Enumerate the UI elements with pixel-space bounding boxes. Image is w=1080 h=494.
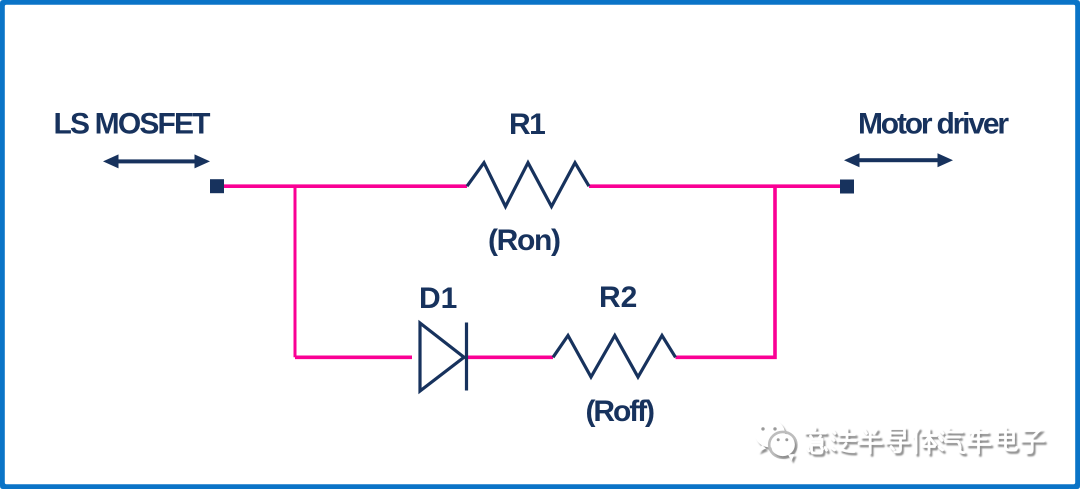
- wire: bottom branch to diode: [295, 355, 412, 359]
- 子: [1022, 431, 1044, 453]
- wire: left branch vertical drop: [294, 185, 297, 358]
- resistor R2 zigzag: [553, 336, 676, 378]
- 汽: [939, 429, 964, 453]
- 电: [998, 428, 1017, 450]
- double arrow under Motor driver: [844, 153, 953, 167]
- wire: R1 to right pad: [589, 184, 840, 188]
- svg-text:LS MOSFET: LS MOSFET: [54, 108, 211, 141]
- 半: [859, 430, 882, 454]
- svg-text:(Roff): (Roff): [586, 395, 656, 428]
- watermark caption 意法半导体汽车电子 (drawn strokes): [806, 428, 1044, 454]
- svg-text:D1: D1: [419, 282, 457, 315]
- 意: [806, 428, 827, 454]
- 导: [887, 429, 909, 452]
- svg-text:R2: R2: [599, 281, 637, 314]
- wire: diode to R2: [464, 355, 553, 359]
- terminal node right (square pad): [840, 180, 854, 194]
- resistor R1 zigzag: [467, 163, 589, 207]
- svg-text:Motor driver: Motor driver: [858, 108, 1009, 141]
- watermark WeChat logo: [755, 420, 796, 462]
- 体: [914, 429, 937, 454]
- 法: [831, 429, 856, 452]
- svg-text:R1: R1: [509, 108, 545, 141]
- 车: [968, 429, 991, 453]
- wire: R2 to right riser and up to top wire: [676, 186, 776, 357]
- svg-text:(Ron): (Ron): [488, 224, 561, 257]
- terminal node left (square pad): [210, 179, 224, 193]
- wire: left pad to R1: [224, 184, 467, 188]
- diode D1 (triangle + cathode bar): [420, 323, 467, 392]
- double arrow under LS MOSFET: [103, 154, 210, 168]
